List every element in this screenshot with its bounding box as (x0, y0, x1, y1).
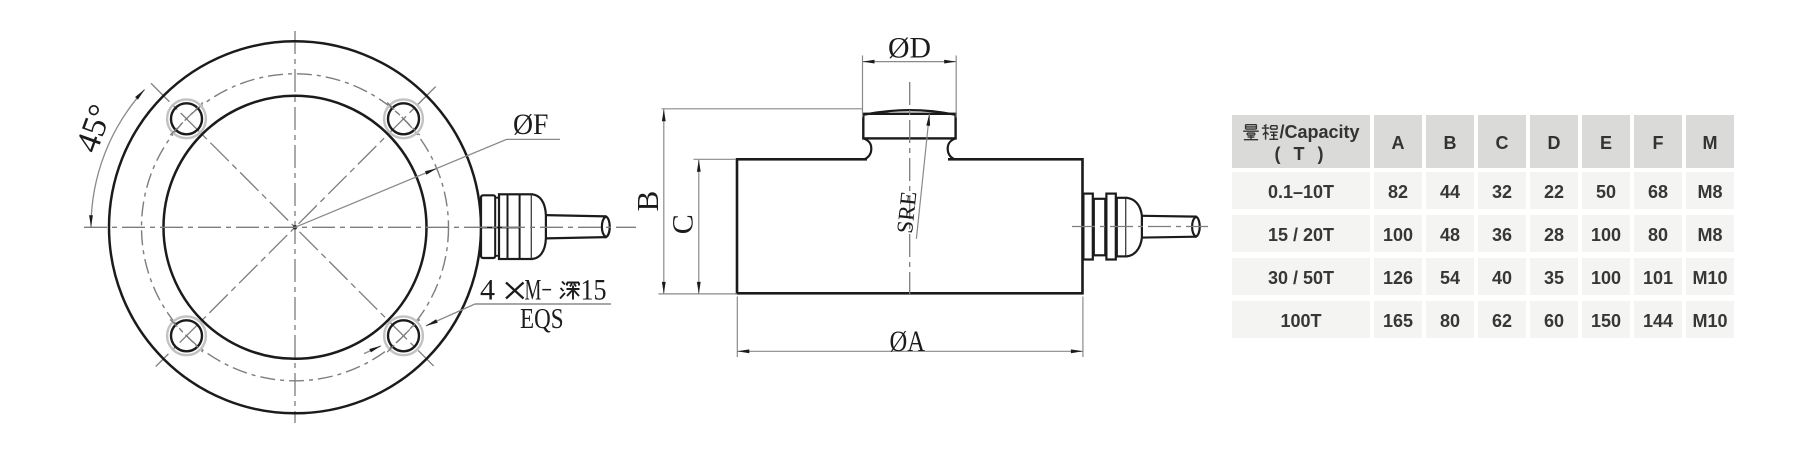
button neck right (948, 138, 956, 159)
left gland ring (495, 198, 499, 256)
bolt hole top-right halo (384, 99, 423, 138)
table row 30/50T (1232, 258, 1734, 295)
button neck left (863, 138, 871, 159)
left gland mid seam (481, 227, 520, 229)
right cable bottom (1142, 236, 1196, 239)
bolt circle (dash-dot) (142, 74, 449, 381)
left cable top (546, 215, 606, 216)
oA extension left (736, 297, 738, 358)
bolt hole bottom-left halo (167, 316, 206, 355)
bolt hole bottom-left (171, 320, 202, 351)
B dimension line (663, 109, 665, 294)
table row 0.1-10T (1232, 172, 1734, 209)
left gland rib 1 (507, 194, 509, 259)
inner circle (164, 96, 427, 359)
oA dimension line (737, 350, 1083, 352)
left gland washer (481, 195, 495, 258)
oF leader line (295, 139, 560, 227)
right gland part1 (1083, 194, 1092, 260)
left gland dome (532, 194, 546, 259)
left cable tip (602, 216, 610, 237)
table header row (1232, 115, 1734, 168)
svg-text:4: 4 (480, 274, 495, 307)
opposite arrow tail (364, 346, 381, 354)
svg-text:ØF: ØF (513, 108, 549, 141)
middle view body (737, 159, 1083, 293)
arc arrow top (135, 90, 145, 100)
B arrow bottom (662, 282, 666, 294)
left gland body (499, 194, 532, 259)
B arrow top (662, 109, 666, 121)
button crown (863, 110, 955, 115)
C arrow top (697, 160, 701, 172)
glyph shen (deep) (560, 282, 580, 300)
bolt hole bottom-right (388, 320, 419, 351)
left cable bottom (546, 237, 606, 238)
bolt hole crosshair TR (387, 103, 420, 136)
B C bottom extension (659, 293, 738, 295)
left gland rib 2 (519, 194, 521, 259)
cover top edge under button (867, 158, 948, 161)
diagonal centerline NW-SE (left view) (151, 83, 434, 366)
C dimension line (698, 160, 700, 294)
C extension top (694, 158, 737, 160)
right gland part2 (1094, 199, 1106, 256)
SRE leader arrow (926, 114, 930, 126)
C arrow bottom (697, 282, 701, 294)
oD arrow right (944, 60, 956, 64)
right gland part4 (1117, 198, 1127, 257)
bolt hole top-right (388, 103, 419, 134)
vertical centerline (left view) (294, 31, 296, 423)
svg-text:45°: 45° (69, 100, 120, 157)
right cable top (1142, 215, 1196, 218)
bolt hole crosshair BR (387, 320, 420, 353)
right gland part3 (1106, 194, 1115, 260)
svg-text:SRE: SRE (892, 190, 921, 235)
fraction bar (475, 303, 611, 305)
oD extension left (862, 56, 864, 118)
B top extension (662, 108, 864, 110)
dimension table (1232, 115, 1734, 338)
table row 100T (1232, 301, 1734, 338)
glyph cheng (1261, 124, 1279, 141)
svg-text:15: 15 (581, 274, 607, 307)
outer flange circle (109, 41, 481, 413)
arc arrow bottom (89, 215, 93, 227)
4xM leader line (426, 304, 475, 326)
bolt hole top-left halo (167, 99, 206, 138)
bolt hole crosshair BL (170, 320, 203, 353)
oF leader arrow (425, 168, 437, 174)
45 degree dimension arc (91, 90, 145, 228)
bolt hole top-left (171, 103, 202, 134)
oD extension right (955, 56, 957, 118)
4xM leader arrow (426, 319, 438, 326)
svg-text:M−: M− (525, 274, 553, 307)
oD arrow left (863, 60, 875, 64)
oA extension right (1082, 297, 1084, 358)
diagonal centerline NE-SW (left view) (156, 87, 436, 367)
glyph liang (1242, 124, 1260, 141)
button centerline (909, 82, 911, 294)
svg-text:B: B (630, 191, 665, 212)
oD dimension line (863, 61, 957, 63)
oA arrow left (737, 349, 749, 353)
SRE leader (916, 114, 929, 239)
center dot (293, 225, 298, 230)
horizontal centerline / gland axis (left view) (84, 226, 636, 228)
load button (863, 114, 955, 139)
right gland axis (1072, 226, 1208, 228)
right cable tip (1192, 217, 1200, 237)
multiplication sign (506, 283, 524, 299)
bolt hole crosshair TL (170, 103, 203, 136)
svg-text:ØD: ØD (888, 32, 931, 65)
table row 15/20T (1232, 215, 1734, 252)
bolt hole bottom-right halo (384, 316, 423, 355)
right gland dome (1126, 198, 1142, 257)
svg-text:ØA: ØA (890, 325, 926, 358)
svg-text:C: C (667, 214, 700, 234)
oA arrow right (1071, 349, 1083, 353)
svg-text:EQS: EQS (520, 304, 564, 335)
opposite arrow (369, 346, 381, 353)
